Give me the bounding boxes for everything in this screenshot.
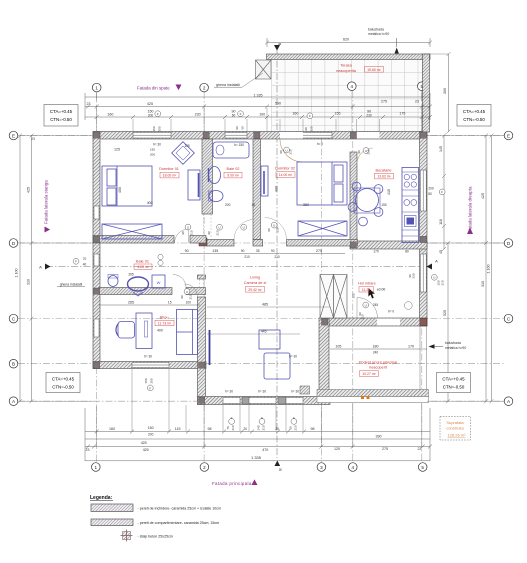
- svg-text:Baie 01: Baie 01: [136, 259, 149, 263]
- svg-text:425: 425: [481, 193, 485, 199]
- room label living: [244, 276, 267, 292]
- svg-text:B: B: [277, 42, 282, 45]
- svg-text:90: 90: [180, 295, 184, 299]
- svg-text:20: 20: [275, 427, 279, 431]
- svg-text:98: 98: [208, 427, 212, 431]
- svg-text:45: 45: [439, 250, 443, 254]
- svg-text:F: F: [149, 387, 151, 391]
- bubble B left: [9, 359, 18, 368]
- column markers: [93, 132, 426, 404]
- svg-text:310: 310: [27, 279, 31, 285]
- svg-text:90: 90: [207, 231, 211, 235]
- svg-text:9.00 m²: 9.00 m²: [227, 174, 239, 178]
- svg-text:120: 120: [334, 447, 340, 451]
- svg-text:80: 80: [405, 250, 409, 254]
- door arc baie01: [173, 275, 186, 288]
- door arc corridor west: [234, 220, 254, 240]
- door arc entrance: [357, 298, 378, 319]
- nightstand dorm02: [261, 166, 268, 196]
- svg-text:5: 5: [421, 465, 424, 470]
- svg-text:E: E: [507, 133, 510, 138]
- door dashes baie02: [203, 214, 205, 238]
- svg-text:210: 210: [262, 425, 266, 430]
- grid axes group: [18, 48, 504, 462]
- svg-text:F: F: [293, 416, 295, 420]
- right horiz extensions: [427, 135, 504, 137]
- wall entrance hol: [329, 318, 427, 326]
- right dim segments: [443, 136, 445, 250]
- svg-text:CTA=+0.45: CTA=+0.45: [463, 109, 486, 114]
- coffee table living: [259, 330, 280, 349]
- svg-text:210: 210: [274, 255, 280, 259]
- bed dormitor 01: [102, 166, 152, 206]
- svg-text:210: 210: [189, 294, 193, 299]
- svg-text:balustrada: balustrada: [368, 28, 384, 32]
- svg-text:170: 170: [408, 345, 414, 349]
- svg-text:160: 160: [107, 112, 113, 116]
- U circle right hol window: [431, 274, 437, 280]
- svg-text:390: 390: [376, 435, 382, 439]
- svg-text:2: 2: [203, 465, 206, 470]
- sofa living: [177, 310, 198, 355]
- svg-text:200: 200: [150, 378, 154, 383]
- svg-text:200: 200: [225, 203, 231, 207]
- door arc kitchen west: [357, 148, 373, 164]
- bubble 5 bottom: [418, 463, 427, 472]
- svg-text:485: 485: [262, 303, 268, 307]
- svg-text:160: 160: [292, 111, 298, 115]
- column entrance corner: [420, 318, 427, 325]
- right dim 300 terrace: [448, 54, 450, 132]
- svg-text:23: 23: [415, 100, 419, 104]
- CTA box bottom-left: [46, 373, 80, 393]
- axis bubbles: [9, 82, 513, 471]
- floor drain circle hol: [404, 302, 412, 310]
- terrace grid: [272, 59, 423, 132]
- podest step dots: [361, 396, 370, 399]
- svg-text:210: 210: [231, 425, 235, 430]
- svg-text:40: 40: [83, 263, 87, 267]
- svg-text:20: 20: [244, 427, 248, 431]
- balustrada right arrow: [429, 344, 435, 348]
- svg-text:150: 150: [144, 378, 148, 383]
- svg-text:Bucatarie: Bucatarie: [375, 168, 391, 172]
- room label dormitor01: [159, 167, 179, 178]
- left dim line 1100: [19, 136, 21, 402]
- kitchen counter: [402, 168, 419, 243]
- door arc living: [185, 284, 198, 297]
- svg-text:425: 425: [143, 448, 149, 452]
- bubble D left: [9, 239, 18, 248]
- wall living west: [198, 275, 206, 279]
- svg-text:10.27 m²: 10.27 m²: [362, 372, 376, 376]
- svg-text:90: 90: [357, 150, 361, 154]
- svg-text:230: 230: [412, 273, 416, 278]
- suprafata box: [440, 417, 471, 441]
- svg-text:210: 210: [216, 230, 220, 235]
- dim line top 1335: [85, 96, 430, 98]
- CTA box bottom-right: [437, 373, 471, 393]
- svg-text:165: 165: [352, 293, 356, 298]
- svg-text:60: 60: [241, 126, 245, 130]
- axis C horizontal: [18, 318, 504, 320]
- wardrobe dormitor 01: [188, 170, 200, 200]
- extension lines bottom: [97, 369, 422, 446]
- sink baie01: [128, 277, 149, 291]
- bubble 3 bottom: [317, 463, 326, 472]
- left dim line 425: [31, 136, 33, 402]
- section A marker left: [45, 264, 51, 270]
- CTA box top-left: [44, 105, 78, 127]
- svg-text:265: 265: [128, 272, 134, 276]
- facade label top: [137, 85, 182, 91]
- legend column symbol: [121, 530, 173, 542]
- svg-text:230: 230: [310, 126, 314, 131]
- svg-text:h= 30: h= 30: [289, 355, 297, 359]
- svg-text:Dormitor 02: Dormitor 02: [275, 167, 295, 171]
- svg-text:U: U: [365, 149, 367, 153]
- bed dormitor 02: [297, 162, 347, 205]
- column bottom wall 2: [278, 397, 286, 404]
- svg-text:±0.00: ±0.00: [377, 288, 386, 292]
- svg-text:- pereti de compartimentare- c: - pereti de compartimentare- caramida 25…: [138, 521, 220, 525]
- bubble 2 top: [200, 83, 209, 92]
- room label dormitor02: [275, 167, 295, 178]
- svg-text:23: 23: [418, 447, 422, 451]
- svg-text:ghena instalatii: ghena instalatii: [60, 283, 83, 287]
- room label baie01: [134, 259, 152, 269]
- svg-text:1 335: 1 335: [251, 455, 262, 460]
- svg-text:4: 4: [351, 84, 354, 89]
- hall dim line: [99, 304, 200, 306]
- svg-text:metalica h=90: metalica h=90: [445, 346, 466, 350]
- dim line top segments: [85, 116, 430, 118]
- stove burners: [404, 174, 409, 179]
- shower diamond dorm01: [172, 142, 195, 165]
- toilet baie01: [108, 276, 118, 287]
- dimension texts: [15, 28, 491, 471]
- podest edge lines: [420, 326, 427, 390]
- kitchen table: [356, 189, 379, 212]
- svg-text:415: 415: [387, 189, 391, 195]
- svg-text:h= 30: h= 30: [291, 390, 299, 394]
- svg-text:210: 210: [367, 149, 371, 154]
- bottom dim row windows: [85, 431, 430, 433]
- svg-text:400: 400: [275, 186, 279, 192]
- svg-text:200: 200: [428, 186, 434, 190]
- svg-text:310: 310: [481, 281, 485, 287]
- svg-text:Fatada principala: Fatada principala: [212, 481, 252, 486]
- door arc dorm01: [175, 229, 189, 243]
- window left corridor: [94, 254, 99, 266]
- wall podest west: [319, 318, 329, 394]
- axis 2 vertical: [203, 92, 205, 462]
- svg-text:Baie 02: Baie 02: [227, 167, 240, 171]
- svg-text:200: 200: [158, 126, 162, 131]
- podest dim line: [330, 348, 427, 350]
- axis E horizontal: [18, 135, 504, 137]
- chair birou: [118, 322, 135, 339]
- window right hol: [420, 254, 426, 292]
- section A marker right: [427, 264, 433, 270]
- extension lines top: [97, 108, 422, 131]
- bubble 2 bottom: [200, 463, 209, 472]
- axis D horizontal: [18, 242, 504, 244]
- svg-text:90: 90: [267, 228, 271, 232]
- kitchen chairs: [352, 182, 361, 191]
- svg-text:15: 15: [168, 301, 172, 305]
- svg-text:275: 275: [382, 447, 388, 451]
- svg-text:210: 210: [190, 230, 194, 235]
- bubble 1 top: [92, 83, 101, 92]
- bubble 4 bottom: [349, 463, 358, 472]
- svg-text:128.26 m²: 128.26 m²: [447, 433, 466, 438]
- svg-text:425: 425: [147, 102, 153, 106]
- bubble A left: [9, 397, 18, 406]
- U circles doors: [185, 224, 191, 230]
- svg-text:Birou: Birou: [160, 316, 169, 320]
- bathtub baie02: [213, 142, 249, 158]
- corridor dim line: [180, 253, 345, 255]
- svg-text:275: 275: [316, 249, 322, 253]
- svg-text:210: 210: [244, 255, 250, 259]
- svg-text:100: 100: [186, 301, 192, 305]
- window birou bottom: [132, 363, 169, 368]
- F circles top windows: [155, 111, 161, 117]
- podest front step: [317, 390, 429, 397]
- svg-text:23: 23: [31, 137, 35, 141]
- svg-text:19.60 m²: 19.60 m²: [367, 68, 381, 72]
- svg-text:155: 155: [335, 111, 341, 115]
- furniture: [102, 142, 427, 390]
- svg-text:Suprafata: Suprafata: [446, 420, 464, 425]
- interior wall baie01 bottom: [99, 288, 172, 295]
- bubble A right: [504, 397, 513, 406]
- svg-text:245: 245: [373, 303, 379, 307]
- svg-text:neacoperit: neacoperit: [369, 365, 388, 369]
- svg-text:80: 80: [428, 192, 432, 196]
- room label birou: [155, 316, 174, 326]
- svg-text:18.00 m²: 18.00 m²: [163, 174, 177, 178]
- interior wall corridor dorm01: [93, 236, 174, 244]
- svg-text:265: 265: [128, 301, 134, 305]
- svg-text:U: U: [187, 225, 189, 229]
- svg-text:- pereti de inchidere- caramid: - pereti de inchidere- caramida 25cm + i…: [138, 506, 222, 510]
- svg-text:1: 1: [95, 85, 98, 90]
- svg-text:h= 0: h= 0: [388, 310, 395, 314]
- mouse cursor: [368, 288, 375, 299]
- svg-text:4.85 m²: 4.85 m²: [137, 265, 149, 269]
- interior wall dorm01/baie02: [202, 139, 213, 214]
- svg-text:CTN=-0.50: CTN=-0.50: [52, 385, 74, 390]
- svg-text:2: 2: [203, 85, 206, 90]
- walls: [93, 54, 430, 405]
- kitchen sink unit: [405, 216, 417, 227]
- svg-text:140: 140: [257, 425, 261, 430]
- bottom dim line 1335: [85, 460, 430, 462]
- svg-text:115: 115: [175, 427, 181, 431]
- svg-text:Podest acces principal: Podest acces principal: [359, 360, 397, 364]
- window right kitchen: [420, 170, 426, 211]
- svg-text:425: 425: [141, 441, 147, 445]
- interior wall baie01 right jamb: [186, 288, 206, 295]
- svg-text:90: 90: [241, 249, 245, 253]
- room label baie02: [224, 167, 242, 178]
- svg-text:F: F: [261, 416, 263, 420]
- svg-text:590: 590: [275, 101, 281, 105]
- svg-text:balustrada: balustrada: [445, 341, 461, 345]
- svg-text:CTA=+0.45: CTA=+0.45: [52, 377, 75, 382]
- svg-text:98: 98: [311, 427, 315, 431]
- svg-text:200: 200: [148, 114, 154, 118]
- facade label left: [44, 180, 51, 233]
- window left birou: [94, 319, 99, 337]
- facade label bottom: [212, 479, 258, 486]
- svg-text:U: U: [286, 148, 288, 152]
- svg-text:70: 70: [226, 426, 230, 430]
- exterior wall right: [420, 132, 428, 327]
- svg-text:400: 400: [157, 329, 163, 333]
- svg-text:h= 0: h= 0: [317, 142, 324, 146]
- svg-text:23: 23: [86, 448, 90, 452]
- dimensions: [18, 38, 504, 466]
- svg-text:15: 15: [252, 203, 256, 207]
- axis B horizontal: [18, 363, 504, 365]
- svg-text:210: 210: [441, 280, 445, 285]
- room label hol: [358, 282, 385, 292]
- svg-text:1 335: 1 335: [254, 93, 263, 97]
- svg-text:90: 90: [185, 249, 189, 253]
- axis 4 vertical: [352, 91, 354, 462]
- axis A horizontal: [18, 400, 504, 402]
- terrace parapet top: [267, 54, 431, 60]
- svg-text:h= 30: h= 30: [258, 390, 266, 394]
- legend sample interior wall: [91, 519, 219, 526]
- dim verticals top: [84, 93, 86, 120]
- svg-text:135: 135: [212, 249, 218, 253]
- svg-text:- stalp beton 25x25cm: - stalp beton 25x25cm: [138, 535, 173, 539]
- room label terasa: [336, 64, 383, 74]
- door leaf living: [209, 330, 211, 365]
- svg-text:470: 470: [262, 448, 268, 452]
- svg-text:ghena instalatii: ghena instalatii: [216, 83, 240, 87]
- F circles bottom windows: [229, 419, 235, 425]
- svg-text:W: W: [157, 280, 161, 285]
- wall kitchen bottom: [350, 241, 427, 249]
- svg-text:metalica h=90: metalica h=90: [368, 32, 389, 36]
- svg-text:150: 150: [381, 203, 387, 207]
- window top baie02: [225, 133, 247, 139]
- svg-text:350: 350: [303, 203, 309, 207]
- svg-text:Hol intrare: Hol intrare: [358, 282, 376, 286]
- bottom dim line 23-425: [85, 446, 430, 448]
- left horiz extension lines: [20, 135, 93, 137]
- svg-text:29.42 m²: 29.42 m²: [248, 288, 262, 292]
- terrace parapet right: [423, 54, 430, 132]
- right dim 525: [447, 243, 449, 401]
- bottom dim line 425-470: [85, 438, 430, 440]
- svg-text:4: 4: [352, 465, 355, 470]
- svg-text:14.00 m²: 14.00 m²: [279, 173, 293, 177]
- svg-text:400: 400: [118, 187, 122, 193]
- closet hol 2: [334, 275, 348, 319]
- svg-text:Fatada din spate: Fatada din spate: [137, 85, 170, 90]
- svg-text:275: 275: [381, 100, 387, 104]
- svg-text:210: 210: [294, 425, 298, 430]
- door to terrace kitchen: [357, 132, 380, 139]
- CTA box top-right: [457, 105, 491, 127]
- bubble E left: [9, 131, 18, 140]
- balustrada arrow: [395, 48, 399, 54]
- svg-text:CTN=-0.50: CTN=-0.50: [443, 385, 465, 390]
- legend sample exterior wall: [91, 504, 221, 512]
- svg-text:construita: construita: [446, 426, 464, 431]
- svg-text:620: 620: [343, 38, 349, 42]
- svg-text:150: 150: [150, 148, 155, 152]
- wall bottom birou: [93, 362, 206, 369]
- svg-text:F: F: [309, 114, 311, 118]
- svg-text:F: F: [231, 416, 233, 420]
- sink baie02: [209, 167, 221, 184]
- svg-text:200: 200: [150, 153, 155, 157]
- interior wall dorm02 bottom: [287, 240, 358, 247]
- svg-text:100: 100: [259, 112, 265, 116]
- svg-text:U: U: [365, 303, 367, 307]
- bubble 4 top: [348, 82, 357, 91]
- svg-text:CTA=+0.45: CTA=+0.45: [50, 109, 73, 114]
- svg-text:Fatada laterala dreapta: Fatada laterala dreapta: [468, 186, 473, 232]
- svg-text:Camera de zi: Camera de zi: [244, 281, 267, 285]
- svg-text:90: 90: [279, 150, 283, 154]
- entrance door gap: [377, 319, 400, 326]
- axis 3 vertical: [320, 136, 322, 462]
- svg-text:E: E: [12, 133, 15, 138]
- F circle left window: [73, 258, 79, 264]
- bubble E right: [504, 131, 513, 140]
- svg-text:F: F: [441, 190, 443, 194]
- interior wall baie02/dorm02: [253, 139, 261, 240]
- windows living bottom: [223, 398, 303, 404]
- svg-text:200: 200: [148, 432, 154, 436]
- svg-text:Living: Living: [250, 276, 260, 280]
- ghena shaft box: [256, 60, 272, 79]
- svg-text:h= 150: h= 150: [234, 143, 244, 147]
- svg-text:A: A: [435, 259, 438, 264]
- room label bucatarie: [375, 168, 394, 179]
- legend: [90, 495, 221, 542]
- svg-text:90: 90: [181, 231, 185, 235]
- facade label right: [467, 186, 473, 234]
- interior wall dorm02/kitchen: [350, 152, 357, 243]
- section line A-A: [46, 266, 430, 268]
- svg-text:U: U: [186, 290, 188, 294]
- right dim 425: [485, 136, 487, 402]
- svg-text:B: B: [278, 468, 283, 471]
- bubble 5 top: [418, 82, 427, 91]
- step stub left: [300, 386, 310, 394]
- column bottom wall 1: [242, 397, 250, 404]
- svg-text:230: 230: [366, 114, 372, 118]
- toilet baie02: [209, 191, 223, 202]
- svg-text:125: 125: [184, 144, 190, 148]
- svg-text:CTA=+0.45: CTA=+0.45: [442, 377, 465, 382]
- interior wall corridor south west segment: [207, 240, 234, 247]
- exterior wall left: [93, 132, 100, 369]
- window top dorm02: [302, 133, 332, 139]
- svg-text:U: U: [243, 226, 245, 230]
- svg-text:70: 70: [83, 257, 87, 261]
- svg-text:1 100: 1 100: [487, 265, 491, 274]
